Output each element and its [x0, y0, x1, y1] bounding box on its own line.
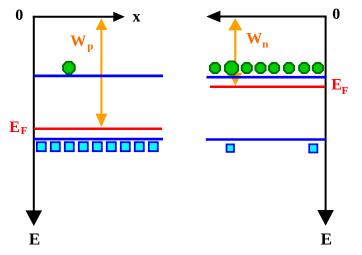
electron 2 (green octagon, n-side) [225, 61, 238, 74]
p-side valence band edge (blue line) [34, 138, 163, 141]
right x axis arrowhead (left) [206, 11, 220, 23]
svg-text:E: E [321, 229, 332, 248]
svg-text:F: F [342, 85, 349, 97]
left E axis arrowhead (down) [26, 210, 43, 226]
right E axis (vertical line) [325, 16, 327, 212]
hole 9 (cyan square, p-side) [149, 142, 158, 151]
svg-text:W: W [70, 33, 86, 50]
hole 1 (cyan square, n-side) [227, 144, 235, 152]
label EF (left, red) [9, 119, 27, 137]
right E axis arrowhead (down) [317, 210, 334, 226]
electron 7 (green octagon, n-side) [299, 63, 309, 73]
left x axis (horizontal line) [33, 16, 115, 18]
svg-text:x: x [133, 8, 141, 25]
hole 1 (cyan square, p-side) [37, 142, 46, 151]
p-side Fermi level EF (red line) [34, 128, 162, 131]
electron 6 (green octagon, n-side) [284, 63, 294, 73]
hole 7 (cyan square, p-side) [121, 142, 130, 151]
right x axis (horizontal line, leftward) [218, 16, 327, 18]
p-side conduction band edge (blue line) [34, 75, 163, 78]
Wp arrowhead bottom [96, 114, 108, 128]
hole 4 (cyan square, p-side) [79, 142, 88, 151]
label EF (right, red) [331, 76, 348, 97]
svg-text:E: E [29, 229, 40, 248]
svg-text:F: F [21, 125, 28, 137]
label Wn [246, 31, 268, 51]
electron 8 (green octagon, n-side) [313, 63, 323, 73]
Wn arrowhead top [228, 18, 242, 30]
svg-text:E: E [9, 119, 20, 136]
Wn arrowhead bottom [228, 73, 242, 86]
electron (green octagon, p-side) [63, 62, 75, 74]
svg-text:p: p [87, 41, 93, 53]
label Wp [70, 33, 93, 53]
svg-text:E: E [331, 76, 342, 93]
left x axis arrowhead (right) [113, 12, 125, 22]
hole 2 (cyan square, n-side) [309, 144, 317, 152]
hole 6 (cyan square, p-side) [107, 142, 116, 151]
electron 4 (green octagon, n-side) [255, 63, 265, 73]
hole 2 (cyan square, p-side) [51, 142, 60, 151]
left E axis (vertical line) [33, 16, 35, 213]
svg-text:0: 0 [332, 6, 340, 23]
Wp arrowhead top [96, 18, 108, 30]
electron 5 (green octagon, n-side) [269, 63, 279, 73]
svg-text:W: W [246, 31, 262, 48]
n-side valence band edge (blue line) [206, 138, 327, 141]
Wn work-function double arrow (vertical orange) [234, 27, 236, 76]
hole 3 (cyan square, p-side) [65, 142, 74, 151]
hole 8 (cyan square, p-side) [135, 142, 144, 151]
hole 5 (cyan square, p-side) [93, 142, 102, 151]
svg-text:n: n [262, 39, 268, 51]
Wp work-function double arrow (vertical orange) [100, 27, 102, 118]
n-side conduction band edge (blue line) [207, 76, 327, 79]
electron 3 (green octagon, n-side) [242, 63, 252, 73]
electron 1 (green octagon, n-side) [210, 63, 220, 73]
svg-text:0: 0 [15, 7, 23, 24]
n-side Fermi level EF (red line) [210, 85, 326, 88]
